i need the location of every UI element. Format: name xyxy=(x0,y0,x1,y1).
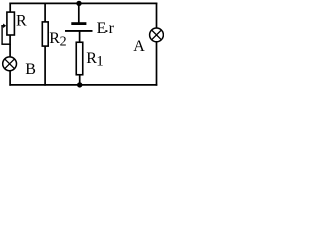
rheostat R body xyxy=(7,12,14,35)
lamp A xyxy=(150,28,164,42)
svg-text:r: r xyxy=(109,20,115,37)
wire R2 bottom stub xyxy=(44,46,46,86)
wire battery to R1 xyxy=(79,31,81,42)
wire lamp B to bottom bus xyxy=(9,71,11,86)
wire battery top stub xyxy=(78,3,80,22)
wire bottom bus xyxy=(9,84,157,86)
rheostat slider arrow xyxy=(1,25,3,27)
battery E r long plate xyxy=(65,30,93,32)
svg-text:B: B xyxy=(25,61,36,78)
battery E r short plate xyxy=(71,22,86,25)
svg-text:R: R xyxy=(16,13,27,30)
svg-text:A: A xyxy=(133,38,145,55)
svg-text:1: 1 xyxy=(96,54,104,70)
wire right drop to lamp A xyxy=(156,3,158,29)
wire rheostat bottom stub xyxy=(9,35,11,45)
svg-text:2: 2 xyxy=(60,34,67,49)
lamp B xyxy=(3,57,17,71)
wire R1 bottom stub xyxy=(79,75,81,86)
resistor R1 body xyxy=(76,42,83,75)
wire slider down-lead xyxy=(1,25,3,44)
wire top-left drop to rheostat xyxy=(9,3,11,13)
wire top bus xyxy=(9,2,157,4)
node bottom junction dot xyxy=(77,82,82,87)
wire join to lamp B xyxy=(9,44,11,57)
wire R2 top stub xyxy=(44,3,46,23)
wire lamp A to bottom bus xyxy=(156,41,158,85)
node top junction dot xyxy=(76,1,81,6)
resistor R2 body xyxy=(42,22,48,46)
wire slider-to-bottom join xyxy=(1,43,10,45)
